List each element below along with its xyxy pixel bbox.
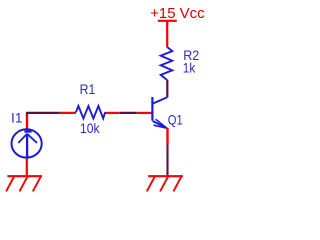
transistor Q1 collector lead [153, 97, 168, 103]
svg-text:R1: R1 [80, 81, 96, 97]
svg-text:10k: 10k [80, 120, 100, 136]
transistor Q1 emitter pin [166, 128, 168, 145]
ground right hatch 2 [160, 177, 168, 192]
current source I1 arrow base blob [25, 153, 29, 158]
resistor R2 [161, 47, 173, 80]
current source I1 arrow barb right [27, 134, 37, 143]
current source I1 bottom pin / wire to ground [26, 158, 28, 175]
wire R2 bottom to collector [166, 80, 168, 98]
ground left bar [7, 175, 42, 177]
transistor Q1 base pin [137, 112, 152, 114]
ground right bar [148, 175, 183, 177]
transistor Q1 emitter arrow barb upper [156, 119, 167, 128]
ground left hatch 3 [33, 177, 41, 192]
svg-text:Q1: Q1 [168, 111, 183, 127]
svg-text:+15 Vcc: +15 Vcc [150, 5, 205, 22]
wire emitter to ground [166, 145, 168, 176]
current source I1 arrow shaft [26, 134, 28, 157]
transistor Q1 emitter arrow barb lower [154, 125, 167, 128]
resistor R1 right pin [105, 112, 120, 114]
current source I1 circle [12, 129, 42, 157]
resistor R1 left pin [60, 112, 76, 114]
resistor R1 [76, 106, 105, 119]
ground right hatch 3 [173, 177, 181, 192]
current source I1 arrow top bar [24, 130, 31, 132]
ground left hatch 2 [20, 177, 28, 192]
wire I1 to R1 [27, 113, 60, 116]
wire base to R1 [120, 112, 137, 114]
power pin wire [166, 21, 168, 47]
current source I1 arrow barb left [18, 134, 27, 143]
ground left hatch 1 [6, 177, 14, 192]
transistor Q1 base bar [151, 97, 153, 121]
power +15 Vcc symbol bar [158, 20, 177, 22]
svg-text:I1: I1 [11, 109, 23, 125]
svg-text:1k: 1k [183, 60, 196, 76]
current source I1 top pin [26, 115, 28, 130]
ground right hatch 1 [147, 177, 155, 192]
transistor Q1 emitter lead [153, 121, 167, 128]
